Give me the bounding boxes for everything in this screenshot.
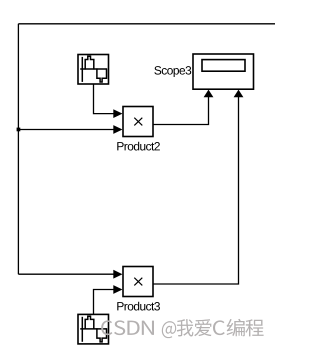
Scope3 screen [202,60,245,72]
wire: Product2 output to Scope3 input 1 [153,97,209,125]
arrowhead into Scope3 input 1 [204,90,214,98]
product block Product2 [123,107,153,137]
arrowhead into Scope3 input 2 [234,90,244,98]
wire: feedback line along top from right edge [18,23,275,25]
arrowhead into Product2 input 2 [113,125,122,134]
Product2 multiply sign [134,118,142,126]
label Scope3 [154,66,191,77]
arrowhead into Product2 input 1 [113,109,122,118]
Product3 multiply sign [134,278,142,286]
wire: pulse1 output down to Product2 input 1 [94,84,115,114]
watermark: CSDN @我爱C编程 [101,319,263,338]
arrowhead into Product3 input 1 [113,270,122,279]
scope block Scope3 [193,54,254,89]
arrowhead into Product3 input 2 [113,285,122,294]
label Product2 [117,142,160,151]
product block Product3 [123,267,153,297]
wire: left vertical bus [17,24,19,274]
label Product3 [117,302,160,311]
wire: pulse2 output up to Product3 input 2 [94,290,115,315]
pulse generator block (top) [78,55,109,85]
wire: bottom branch to Product3 input 1 [18,273,114,275]
pulse generator block (bottom) [78,314,109,344]
node: junction dot on left bus [17,128,21,132]
wire: Product3 output to Scope3 input 2 [153,97,239,284]
wire: branch to Product2 input 2 [18,129,114,131]
